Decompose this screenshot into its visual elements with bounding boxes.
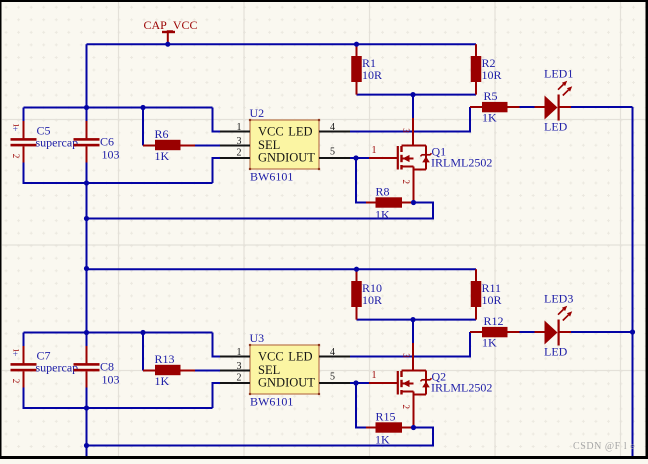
wire [142,108,144,146]
junction [84,405,89,410]
svg-text:U3: U3 [250,331,265,345]
wire [24,388,213,409]
wire [213,158,221,183]
svg-text:1K: 1K [375,433,390,447]
capacitor C7 supercap [11,346,79,388]
svg-text:BW6101: BW6101 [250,395,293,409]
wire [24,163,213,184]
wire [23,108,25,122]
svg-text:103: 103 [102,148,120,162]
junction [140,330,145,335]
pin 1 of U2 [220,122,250,133]
junction [84,330,89,335]
svg-text:+: + [13,125,18,135]
junction [84,180,89,185]
svg-text:LED: LED [544,345,568,359]
svg-text:VCC: VCC [258,350,284,364]
wire [24,332,213,334]
svg-text:LED: LED [288,350,312,364]
junction [630,329,635,334]
wire [87,43,477,45]
wire [356,158,366,203]
junction [84,105,89,110]
resistor R11 10R [471,269,502,319]
wire [213,333,221,357]
wire [86,163,88,347]
IC U3 BW6101 LED driver [249,331,320,409]
svg-text:1: 1 [237,347,242,358]
svg-text:IRLML2502: IRLML2502 [431,156,492,170]
junction [140,105,145,110]
svg-text:10R: 10R [362,68,382,82]
svg-text:2: 2 [237,148,242,159]
svg-text:1K: 1K [482,110,497,124]
wire [213,108,221,132]
svg-text:5: 5 [330,372,335,383]
svg-text:CSDN @F l e: CSDN @F l e [573,441,635,452]
svg-text:IRLML2502: IRLML2502 [431,381,492,395]
svg-text:+: + [13,350,18,360]
pin 3 of U2 [220,136,250,147]
transistor Q1 IRLML2502 [369,118,432,203]
pin 4 of U2 [319,122,350,133]
junction [84,216,89,221]
junction [84,443,89,448]
resistor R13 1K [143,352,195,388]
wire [412,95,414,118]
wire [87,268,477,270]
svg-text:LED: LED [544,120,568,134]
wire [356,383,366,428]
svg-text:R6: R6 [155,127,169,141]
svg-text:R8: R8 [376,185,390,199]
svg-text:5: 5 [330,147,335,158]
resistor R12 1K [470,314,520,349]
svg-text:10R: 10R [362,293,382,307]
wire [24,107,213,109]
junction [354,42,359,47]
capacitor C8 103 [74,346,120,388]
junction [353,380,358,385]
junction [165,42,170,47]
svg-text:supercap: supercap [36,135,79,149]
resistor R1 10R [351,44,382,94]
transistor Q2 IRLML2502 [369,343,432,428]
svg-text:supercap: supercap [36,360,79,374]
svg-text:U2: U2 [250,106,265,120]
svg-text:C6: C6 [100,135,114,149]
wire [357,319,477,321]
wire [87,203,434,219]
wire [213,383,221,408]
svg-text:3: 3 [237,136,242,147]
capacitor C5 supercap [11,121,79,163]
svg-text:CAP_VCC: CAP_VCC [144,18,198,32]
wire [350,157,369,159]
pin 2 of U2 [220,148,250,159]
wire [350,382,369,384]
wire [412,320,414,343]
svg-text:2: 2 [11,379,21,384]
svg-text:2: 2 [401,405,411,410]
svg-text:1: 1 [237,122,242,133]
wire [350,107,470,132]
svg-text:3: 3 [401,128,411,133]
wire [23,333,25,347]
resistor R5 1K [470,89,520,124]
pin 1 of U3 [220,347,250,358]
svg-text:BW6101: BW6101 [250,170,293,184]
IC U2 BW6101 LED driver [249,106,320,184]
svg-text:GNDIOUT: GNDIOUT [258,376,315,390]
svg-text:LED1: LED1 [544,67,573,81]
svg-text:R15: R15 [376,410,396,424]
svg-text:LED: LED [288,125,312,139]
svg-text:103: 103 [102,373,120,387]
svg-text:VCC: VCC [258,125,284,139]
wire [350,332,470,357]
svg-text:GNDIOUT: GNDIOUT [258,151,315,165]
svg-text:2: 2 [11,154,21,159]
svg-text:1K: 1K [155,374,170,388]
svg-text:2: 2 [237,373,242,384]
wire [632,107,634,456]
wire [195,370,220,372]
wire [86,44,88,121]
svg-text:1K: 1K [375,208,390,222]
resistor R8 1K [366,185,415,222]
svg-text:R5: R5 [484,89,498,103]
wire [357,94,477,96]
junction [410,92,415,97]
svg-text:3: 3 [401,353,411,358]
svg-text:R12: R12 [484,314,504,328]
junction [411,200,416,205]
pin 3 of U3 [220,361,250,372]
junction [410,317,415,322]
junction [354,267,359,272]
svg-text:C8: C8 [100,360,114,374]
svg-text:2: 2 [401,180,411,185]
wire [571,331,633,333]
svg-text:1: 1 [372,145,377,156]
svg-text:LED3: LED3 [544,292,573,306]
power port CAP_VCC [144,18,198,44]
resistor R15 1K [366,410,415,447]
wire [571,106,633,108]
wire [519,331,535,333]
pin 2 of U3 [220,373,250,384]
svg-text:R13: R13 [155,352,175,366]
wire [195,145,220,147]
resistor R2 10R [471,44,502,94]
wire [86,388,88,457]
svg-text:10R: 10R [482,68,502,82]
svg-text:4: 4 [330,122,335,133]
svg-text:4: 4 [330,347,335,358]
svg-text:1K: 1K [155,149,170,163]
wire [87,428,434,446]
junction [353,155,358,160]
resistor R10 10R [351,269,382,319]
pin 5 of U2 [319,147,350,159]
LED LED1 [535,67,574,134]
wire [142,333,144,371]
junction [84,266,89,271]
wire [519,106,535,108]
svg-text:1: 1 [372,370,377,381]
svg-text:3: 3 [237,361,242,372]
svg-text:1K: 1K [482,335,497,349]
resistor R6 1K [143,127,195,163]
pin 4 of U3 [319,347,350,358]
pin 5 of U3 [319,372,350,384]
svg-text:10R: 10R [482,293,502,307]
LED LED3 [535,292,574,359]
capacitor C6 103 [74,121,120,163]
junction [411,425,416,430]
